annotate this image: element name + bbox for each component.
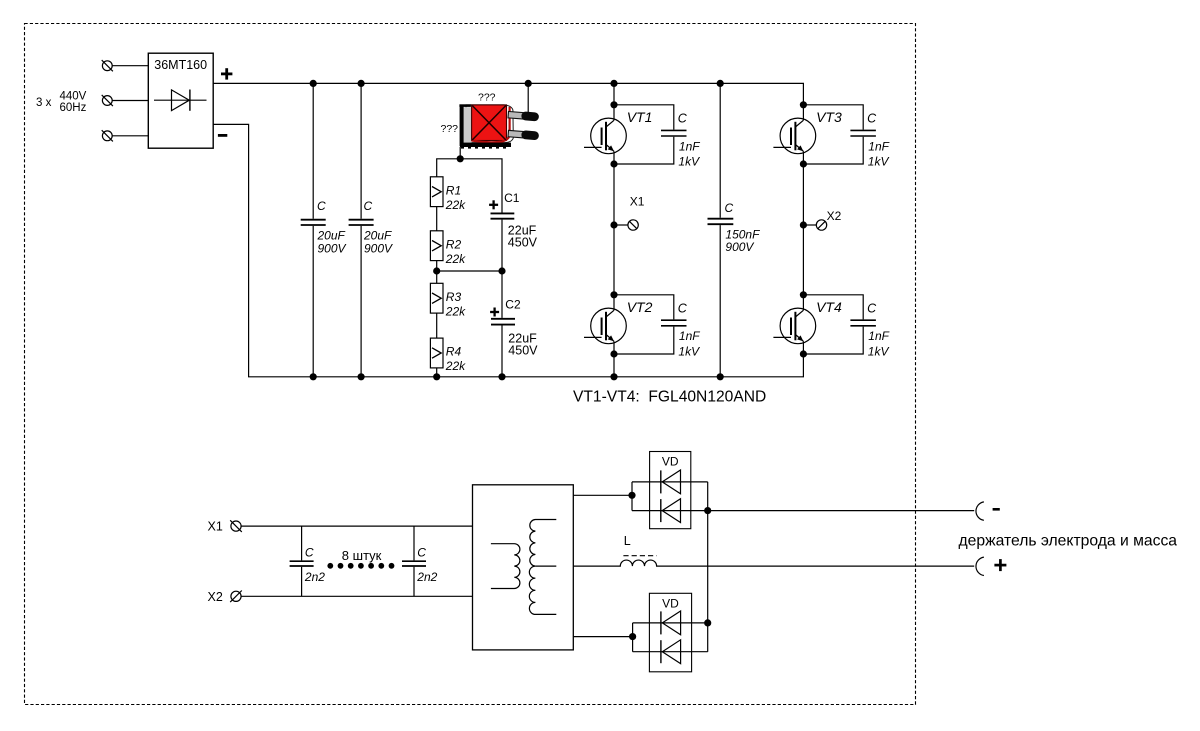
labels VT3 C 1nF 1kV	[816, 109, 890, 168]
capacitor C1 22uF 450V	[491, 213, 515, 271]
svg-text:22k: 22k	[445, 359, 466, 373]
svg-text:20uF: 20uF	[317, 228, 346, 242]
junction dot lower VD left	[629, 633, 636, 640]
value label C 2n2 (left)	[304, 545, 325, 584]
transformer secondary winding	[529, 520, 556, 615]
transformer T (box)	[473, 485, 574, 650]
rectifier internal diode	[154, 90, 207, 111]
wire top bus to VT1	[613, 83, 615, 104]
svg-text:450V: 450V	[508, 344, 538, 358]
svg-text:VT2: VT2	[627, 299, 653, 315]
input terminal 1	[102, 60, 113, 71]
junction dot top VD left	[628, 492, 635, 499]
plus output label	[994, 559, 1006, 571]
input terminal 3	[102, 130, 113, 141]
wire right rail (VD outputs join)	[707, 482, 709, 652]
svg-text:1kV: 1kV	[678, 344, 700, 358]
wire secondary bottom to lower VD	[573, 636, 632, 638]
value label C1 22uF 450V	[504, 191, 538, 249]
wire top VD upper branch	[632, 481, 708, 483]
svg-text:450V: 450V	[508, 235, 538, 249]
svg-text:R2: R2	[446, 237, 462, 251]
svg-text:???: ???	[478, 92, 496, 104]
snubber capacitor C 1nF 1kV at VT3	[803, 105, 876, 164]
svg-text:C: C	[317, 199, 326, 213]
transistor VT4 (IGBT)	[773, 295, 815, 354]
output terminal minus (socket)	[976, 502, 984, 520]
diode block VD (bottom) box	[649, 593, 691, 672]
transistor VT2 (IGBT)	[584, 295, 626, 354]
value label R2 22k	[445, 237, 466, 265]
svg-text:900V: 900V	[725, 240, 754, 254]
output terminal plus (socket)	[976, 557, 984, 575]
svg-text:VD: VD	[662, 597, 679, 611]
wire lower VD upper branch	[633, 622, 708, 624]
svg-text:36MT160: 36MT160	[154, 58, 207, 72]
svg-text:1nF: 1nF	[679, 329, 700, 343]
junction node under unknown component	[457, 155, 464, 162]
svg-text:R3: R3	[446, 290, 462, 304]
svg-text:C: C	[417, 545, 426, 559]
plus polarity label	[221, 68, 232, 79]
svg-text:900V: 900V	[318, 241, 347, 255]
svg-text:VT3: VT3	[816, 109, 842, 125]
wire terminal2 to rectifier	[112, 100, 148, 102]
svg-text:C2: C2	[505, 298, 521, 312]
svg-text:1nF: 1nF	[679, 139, 700, 153]
svg-text:L: L	[624, 534, 631, 548]
svg-text:VT1: VT1	[627, 109, 653, 125]
wire VT1 emitter to VT2 collector	[613, 164, 615, 295]
wire VT2 emitter to bottom bus	[613, 354, 615, 377]
junction dot minus node	[704, 507, 711, 514]
svg-text:2n2: 2n2	[416, 570, 437, 584]
svg-text:20uF: 20uF	[363, 228, 392, 242]
svg-text:VD: VD	[662, 454, 679, 468]
capacitor C2 22uF 450V	[491, 271, 515, 377]
wire terminal1 to rectifier	[112, 65, 148, 67]
wire positive top bus	[213, 83, 803, 104]
transformer primary winding	[491, 544, 520, 589]
svg-text:C: C	[867, 112, 877, 126]
svg-text:X2: X2	[208, 590, 223, 604]
diode block VD (top) box	[650, 452, 691, 529]
value label C 20uF 900V (second)	[363, 199, 393, 255]
wire terminal3 to rectifier	[112, 135, 148, 137]
junction dot lower VD output	[704, 619, 711, 626]
resistor R4 22k	[430, 338, 443, 368]
svg-text:C: C	[678, 112, 688, 126]
svg-text:8 штук: 8 штук	[342, 548, 382, 563]
svg-text:1kV: 1kV	[678, 155, 700, 169]
node X1 (bridge output)	[610, 221, 617, 228]
node X2 (bridge output)	[800, 221, 807, 228]
wire R2 to mid rail	[436, 261, 438, 284]
junction dots mid rail	[433, 267, 440, 274]
enclosure dashed border	[25, 24, 916, 705]
resistor R1 22k	[430, 177, 443, 207]
svg-text:440V: 440V	[60, 91, 87, 103]
wire VT3 emitter to VT4 collector	[802, 164, 804, 295]
junction dots VT2	[610, 291, 617, 298]
value label C2 22uF 450V	[505, 298, 538, 358]
junction dots VT1	[610, 101, 617, 108]
unknown component (photo, marked ???)	[459, 104, 539, 148]
wire top bus to unknown component	[527, 83, 529, 112]
capacitor C 150nF 900V	[708, 83, 734, 376]
transistor VT1 (IGBT)	[584, 105, 626, 164]
wire unknown component to divider node	[459, 147, 461, 159]
svg-text:1kV: 1kV	[868, 344, 890, 358]
minus output label	[993, 508, 1000, 511]
svg-text:1nF: 1nF	[868, 139, 889, 153]
svg-text:22k: 22k	[445, 304, 466, 318]
value label R4 22k	[445, 345, 466, 373]
svg-text:X2: X2	[827, 209, 842, 223]
wire left rail lower VD	[632, 623, 634, 652]
svg-text:C: C	[867, 302, 877, 316]
minus polarity label	[218, 134, 227, 137]
wire left rail top VD	[631, 482, 633, 511]
svg-text:1nF: 1nF	[868, 329, 889, 343]
svg-text:C: C	[725, 201, 734, 215]
wire minus output	[708, 510, 975, 512]
svg-text:R1: R1	[446, 183, 461, 197]
diode VD bottom-1	[661, 611, 681, 635]
value label R3 22k	[445, 290, 466, 318]
svg-text:VT1-VT4: FGL40N120AND: VT1-VT4: FGL40N120AND	[573, 389, 766, 406]
junction dots VT3	[800, 101, 807, 108]
rectifier bridge 36MT160	[148, 53, 213, 148]
wire secondary top to VD	[573, 494, 632, 496]
svg-text:C1: C1	[504, 191, 520, 205]
dotted row, 8 pieces note	[327, 563, 394, 569]
diode VD bottom-2	[661, 640, 681, 664]
labels VT4 C 1nF 1kV	[816, 299, 890, 358]
wire X1 to transformer	[241, 525, 472, 527]
svg-text:C: C	[305, 545, 314, 559]
svg-text:???: ???	[441, 123, 459, 135]
wire lower VD lower branch	[633, 651, 708, 653]
inductor L with core (dashed)	[573, 556, 974, 566]
input terminal 2	[102, 95, 113, 106]
wire top VD lower branch	[632, 510, 708, 512]
wire divider top rail	[437, 159, 502, 213]
labels VT2 C 1nF 1kV	[627, 299, 701, 358]
diode VD top-2	[661, 499, 681, 523]
diode VD top-1	[661, 470, 681, 494]
svg-text:900V: 900V	[364, 241, 393, 255]
transformer secondary center tap lead	[535, 565, 556, 567]
svg-text:X1: X1	[630, 195, 645, 209]
wire R3 to R4	[436, 313, 438, 338]
transistor VT3 (IGBT)	[773, 105, 815, 164]
resistor R3 22k	[430, 283, 443, 313]
capacitor C 20uF 900V (second)	[349, 83, 374, 376]
capacitor C 20uF 900V (first)	[301, 83, 326, 376]
labels VT1 C 1nF 1kV	[627, 109, 701, 168]
wire R1 to R2	[436, 207, 438, 231]
resistor R2 22k	[430, 231, 443, 261]
svg-text:3 x: 3 x	[36, 97, 52, 109]
svg-text:R4: R4	[446, 345, 462, 359]
wire divider mid rail	[437, 270, 502, 272]
value label C 2n2 (right)	[416, 545, 437, 584]
capacitor C 2n2 (right of chain)	[402, 526, 426, 596]
wire X2 to transformer	[241, 595, 472, 597]
value label R1 22k	[445, 183, 466, 211]
svg-text:держатель электрода и масса: держатель электрода и масса	[959, 532, 1178, 549]
wire negative from rectifier	[213, 124, 803, 376]
svg-text:2n2: 2n2	[304, 570, 325, 584]
svg-text:1kV: 1kV	[868, 155, 890, 169]
snubber capacitor C 1nF 1kV at VT4	[803, 295, 876, 354]
value label C 150nF 900V	[725, 201, 761, 254]
wire R4 to bottom bus	[436, 368, 438, 377]
snubber capacitor C 1nF 1kV at VT1	[614, 105, 687, 164]
junction dots bottom bus	[310, 373, 724, 380]
svg-text:X1: X1	[208, 519, 223, 533]
svg-text:C: C	[364, 199, 373, 213]
svg-text:60Hz: 60Hz	[60, 102, 87, 114]
svg-text:C: C	[678, 302, 688, 316]
snubber capacitor C 1nF 1kV at VT2	[614, 295, 687, 354]
svg-text:22k: 22k	[445, 198, 466, 212]
svg-text:22k: 22k	[445, 252, 466, 266]
junction dots top bus	[310, 80, 724, 87]
junction dots VT4	[800, 291, 807, 298]
label 3 x 440V 60Hz	[36, 91, 87, 115]
plus mark C2	[490, 308, 499, 317]
plus mark C1	[489, 200, 498, 209]
value label C 20uF 900V (first)	[317, 199, 347, 255]
capacitor C 2n2 (left of chain)	[290, 526, 314, 596]
svg-text:VT4: VT4	[816, 299, 842, 315]
